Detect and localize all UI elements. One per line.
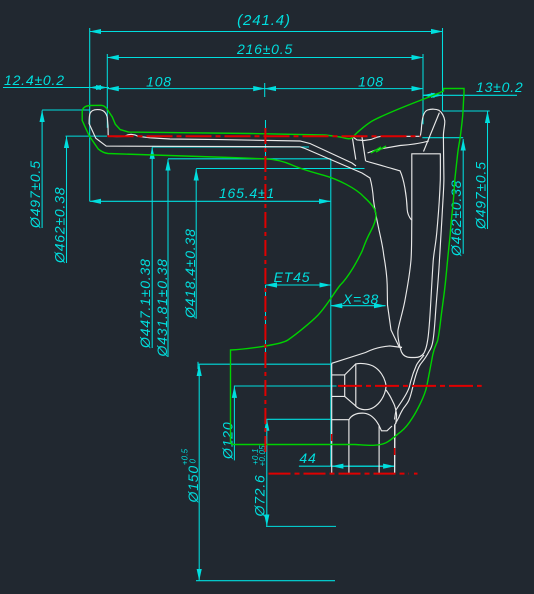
left flange curl <box>89 110 366 176</box>
green coating outline <box>82 89 464 446</box>
red tick left <box>331 434 333 441</box>
dia418.4 dimension line <box>195 169 197 319</box>
wheel center plane centerline <box>264 128 266 453</box>
dia120 extension <box>234 385 337 387</box>
red centerlines <box>108 128 482 474</box>
dia497-left extension <box>42 109 89 111</box>
svg-text:44: 44 <box>299 450 316 466</box>
white rim profile <box>89 109 445 474</box>
svg-text:165.4±1: 165.4±1 <box>219 185 275 201</box>
dia462-right dimension line <box>462 139 464 254</box>
dia150 dimension line <box>198 365 200 581</box>
dia462-left dimension line <box>66 137 68 263</box>
svg-text:108: 108 <box>358 74 384 90</box>
svg-text:Ø462±0.38: Ø462±0.38 <box>52 187 68 264</box>
flange underside <box>368 141 429 153</box>
bead seat left + well top <box>108 134 356 166</box>
dimension 216 line <box>107 57 423 59</box>
red tick right <box>394 448 396 455</box>
dia150 bottom extension <box>196 580 335 582</box>
bore entry <box>332 375 345 397</box>
svg-text:ET45: ET45 <box>274 269 311 285</box>
wheel axis centerline <box>269 473 410 475</box>
dia418.4 extension <box>196 168 364 170</box>
dia462-right extension <box>422 137 463 139</box>
svg-text:0: 0 <box>189 459 198 464</box>
dia497-right extension <box>443 110 490 112</box>
dimension X=38 line <box>331 305 386 307</box>
svg-text:216±0.5: 216±0.5 <box>236 41 293 57</box>
svg-text:(241.4): (241.4) <box>237 12 291 29</box>
dia72.6 top extension <box>266 418 332 420</box>
svg-text:Ø497±0.5: Ø497±0.5 <box>27 160 43 229</box>
green tick marks <box>371 147 381 153</box>
svg-text:Ø150: Ø150 <box>185 465 201 503</box>
dia431.81 dimension line <box>167 159 169 357</box>
dimension 216 extension lines <box>106 54 108 128</box>
pocket floor line <box>395 355 425 420</box>
dia447.1 extension <box>152 146 309 148</box>
flange inner slope <box>424 113 440 152</box>
mounting plane extension line <box>330 159 332 466</box>
dia72.6 dimension line <box>266 419 268 526</box>
svg-text:108: 108 <box>146 74 172 90</box>
bead seat diameter centerline <box>108 135 421 137</box>
dia431.81 extension <box>168 158 331 160</box>
boss dome <box>349 413 379 425</box>
hub top chamfer <box>332 346 402 363</box>
svg-text:Ø418.4±0.38: Ø418.4±0.38 <box>182 228 198 319</box>
svg-text:Ø431.81±0.38: Ø431.81±0.38 <box>154 258 170 357</box>
dia462-left extension <box>66 135 108 137</box>
dia497-left dimension line <box>41 111 43 229</box>
dia120 dimension line <box>233 386 235 460</box>
spoke window <box>398 154 441 358</box>
dimension 13 line <box>423 94 517 96</box>
hub cap groove <box>379 425 392 431</box>
dimension (241.4) line <box>90 31 443 33</box>
dia72.6 bottom extension <box>266 525 336 527</box>
bore capsule <box>356 363 386 409</box>
svg-text:12.4±0.2: 12.4±0.2 <box>4 72 65 88</box>
44 right extension <box>394 452 396 465</box>
dimension (241.4) extension lines <box>89 28 91 201</box>
hump support walls <box>352 137 356 160</box>
dimension 12.4 line <box>3 87 109 89</box>
right flange <box>395 109 445 474</box>
svg-text:Ø120: Ø120 <box>220 422 236 460</box>
dimension ET45 line <box>266 284 331 286</box>
svg-text:Ø447.1±0.38: Ø447.1±0.38 <box>137 258 153 349</box>
back face <box>366 176 402 348</box>
svg-text:Ø497±0.5: Ø497±0.5 <box>473 161 489 230</box>
dimension 108-left line <box>107 88 264 90</box>
dimension 165.4 line <box>90 200 331 202</box>
svg-text:X=38: X=38 <box>342 291 379 307</box>
dia497-right dimension line <box>487 112 489 230</box>
rim inner surface <box>366 161 412 220</box>
bore exit cone <box>386 390 397 424</box>
dia150 top extension <box>198 363 332 365</box>
hub bottom walls <box>332 420 349 474</box>
svg-text:Ø462±0.38: Ø462±0.38 <box>448 180 464 257</box>
center tick at 108/108 <box>264 83 266 97</box>
svg-text:Ø72.6: Ø72.6 <box>252 474 268 517</box>
right bead hump <box>352 136 420 140</box>
dimension 44 line <box>299 465 395 467</box>
ET45 left extension (center plane) <box>265 120 267 159</box>
dia447.1 dimension line <box>151 147 153 348</box>
dimension 108-right line <box>265 88 423 90</box>
hub mounting face <box>331 363 333 474</box>
svg-text:13±0.2: 13±0.2 <box>476 79 524 95</box>
hub bore centerline <box>338 385 482 387</box>
